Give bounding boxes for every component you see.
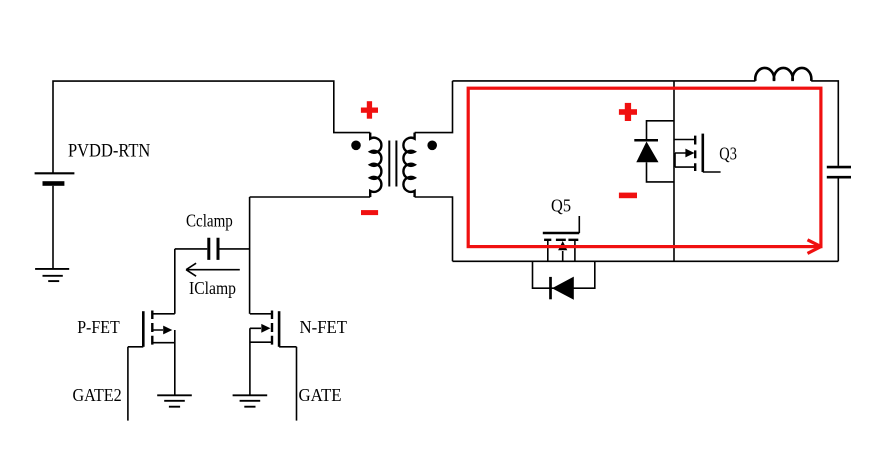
battery PVDD-RTN plate long	[35, 172, 75, 174]
ground below N-FET	[233, 395, 268, 406]
diode D3 cathode bar	[634, 139, 658, 142]
wire top rail	[453, 80, 756, 82]
wire secondary bottom to rail	[415, 197, 453, 261]
wire battery negative to ground	[52, 186, 54, 269]
transistor Q3	[695, 134, 703, 172]
wire clamp node down to N-FET drain	[249, 197, 251, 314]
diode D5 body	[552, 277, 574, 300]
arrow IClamp (pointing left)	[186, 263, 240, 276]
wire secondary top to rail	[415, 81, 453, 133]
wire P-FET drain up to Cclamp	[174, 249, 176, 314]
capacitor C-out plates	[827, 167, 851, 177]
wire GATE2	[127, 347, 129, 421]
diode D3 body	[636, 142, 658, 163]
battery PVDD-RTN plate short thick	[43, 181, 65, 186]
svg-text:Q5: Q5	[551, 195, 571, 215]
wire diode D5 branch	[533, 261, 595, 288]
svg-text:GATE: GATE	[299, 385, 342, 405]
wire Cclamp left	[175, 248, 208, 250]
transistor P-FET	[143, 311, 152, 347]
wire diode D3 anode branch	[647, 121, 675, 139]
svg-text:PVDD-RTN: PVDD-RTN	[68, 141, 151, 162]
wire Q3 bus vertical	[673, 81, 675, 261]
capacitor Cclamp plates	[209, 238, 218, 260]
svg-text:P-FET: P-FET	[77, 317, 120, 337]
transformer T1 primary winding	[370, 133, 381, 197]
red plus primary	[361, 101, 378, 119]
transistor N-FET	[272, 311, 279, 347]
svg-text:GATE2: GATE2	[73, 385, 122, 405]
polarity dot secondary	[427, 141, 437, 151]
red minus secondary	[619, 193, 637, 199]
red minus primary	[361, 210, 378, 215]
wire right edge down	[837, 178, 839, 261]
svg-text:N-FET: N-FET	[300, 317, 348, 337]
transistor Q5	[543, 233, 580, 240]
svg-text:Cclamp: Cclamp	[186, 210, 233, 230]
polarity dot primary	[351, 141, 361, 151]
diode D5 cathode bar	[549, 277, 552, 299]
red current loop	[468, 88, 821, 253]
wire inductor to right corner	[811, 81, 838, 166]
red plus secondary	[619, 103, 637, 121]
ground below P-FET	[157, 395, 192, 406]
transformer core	[389, 141, 396, 187]
ground below battery	[35, 269, 69, 281]
wire diode D3 cathode branch	[647, 162, 675, 182]
transformer T1 secondary winding	[403, 133, 414, 197]
svg-text:IClamp: IClamp	[189, 278, 236, 298]
wire bottom rail	[453, 260, 839, 262]
wire Cclamp right	[220, 248, 250, 250]
wire top-left from battery to transformer primary top	[53, 81, 370, 173]
wire GATE	[296, 347, 298, 421]
wire primary bottom to clamp node	[250, 196, 371, 198]
inductor L1	[755, 68, 811, 81]
svg-text:Q3: Q3	[719, 143, 737, 163]
